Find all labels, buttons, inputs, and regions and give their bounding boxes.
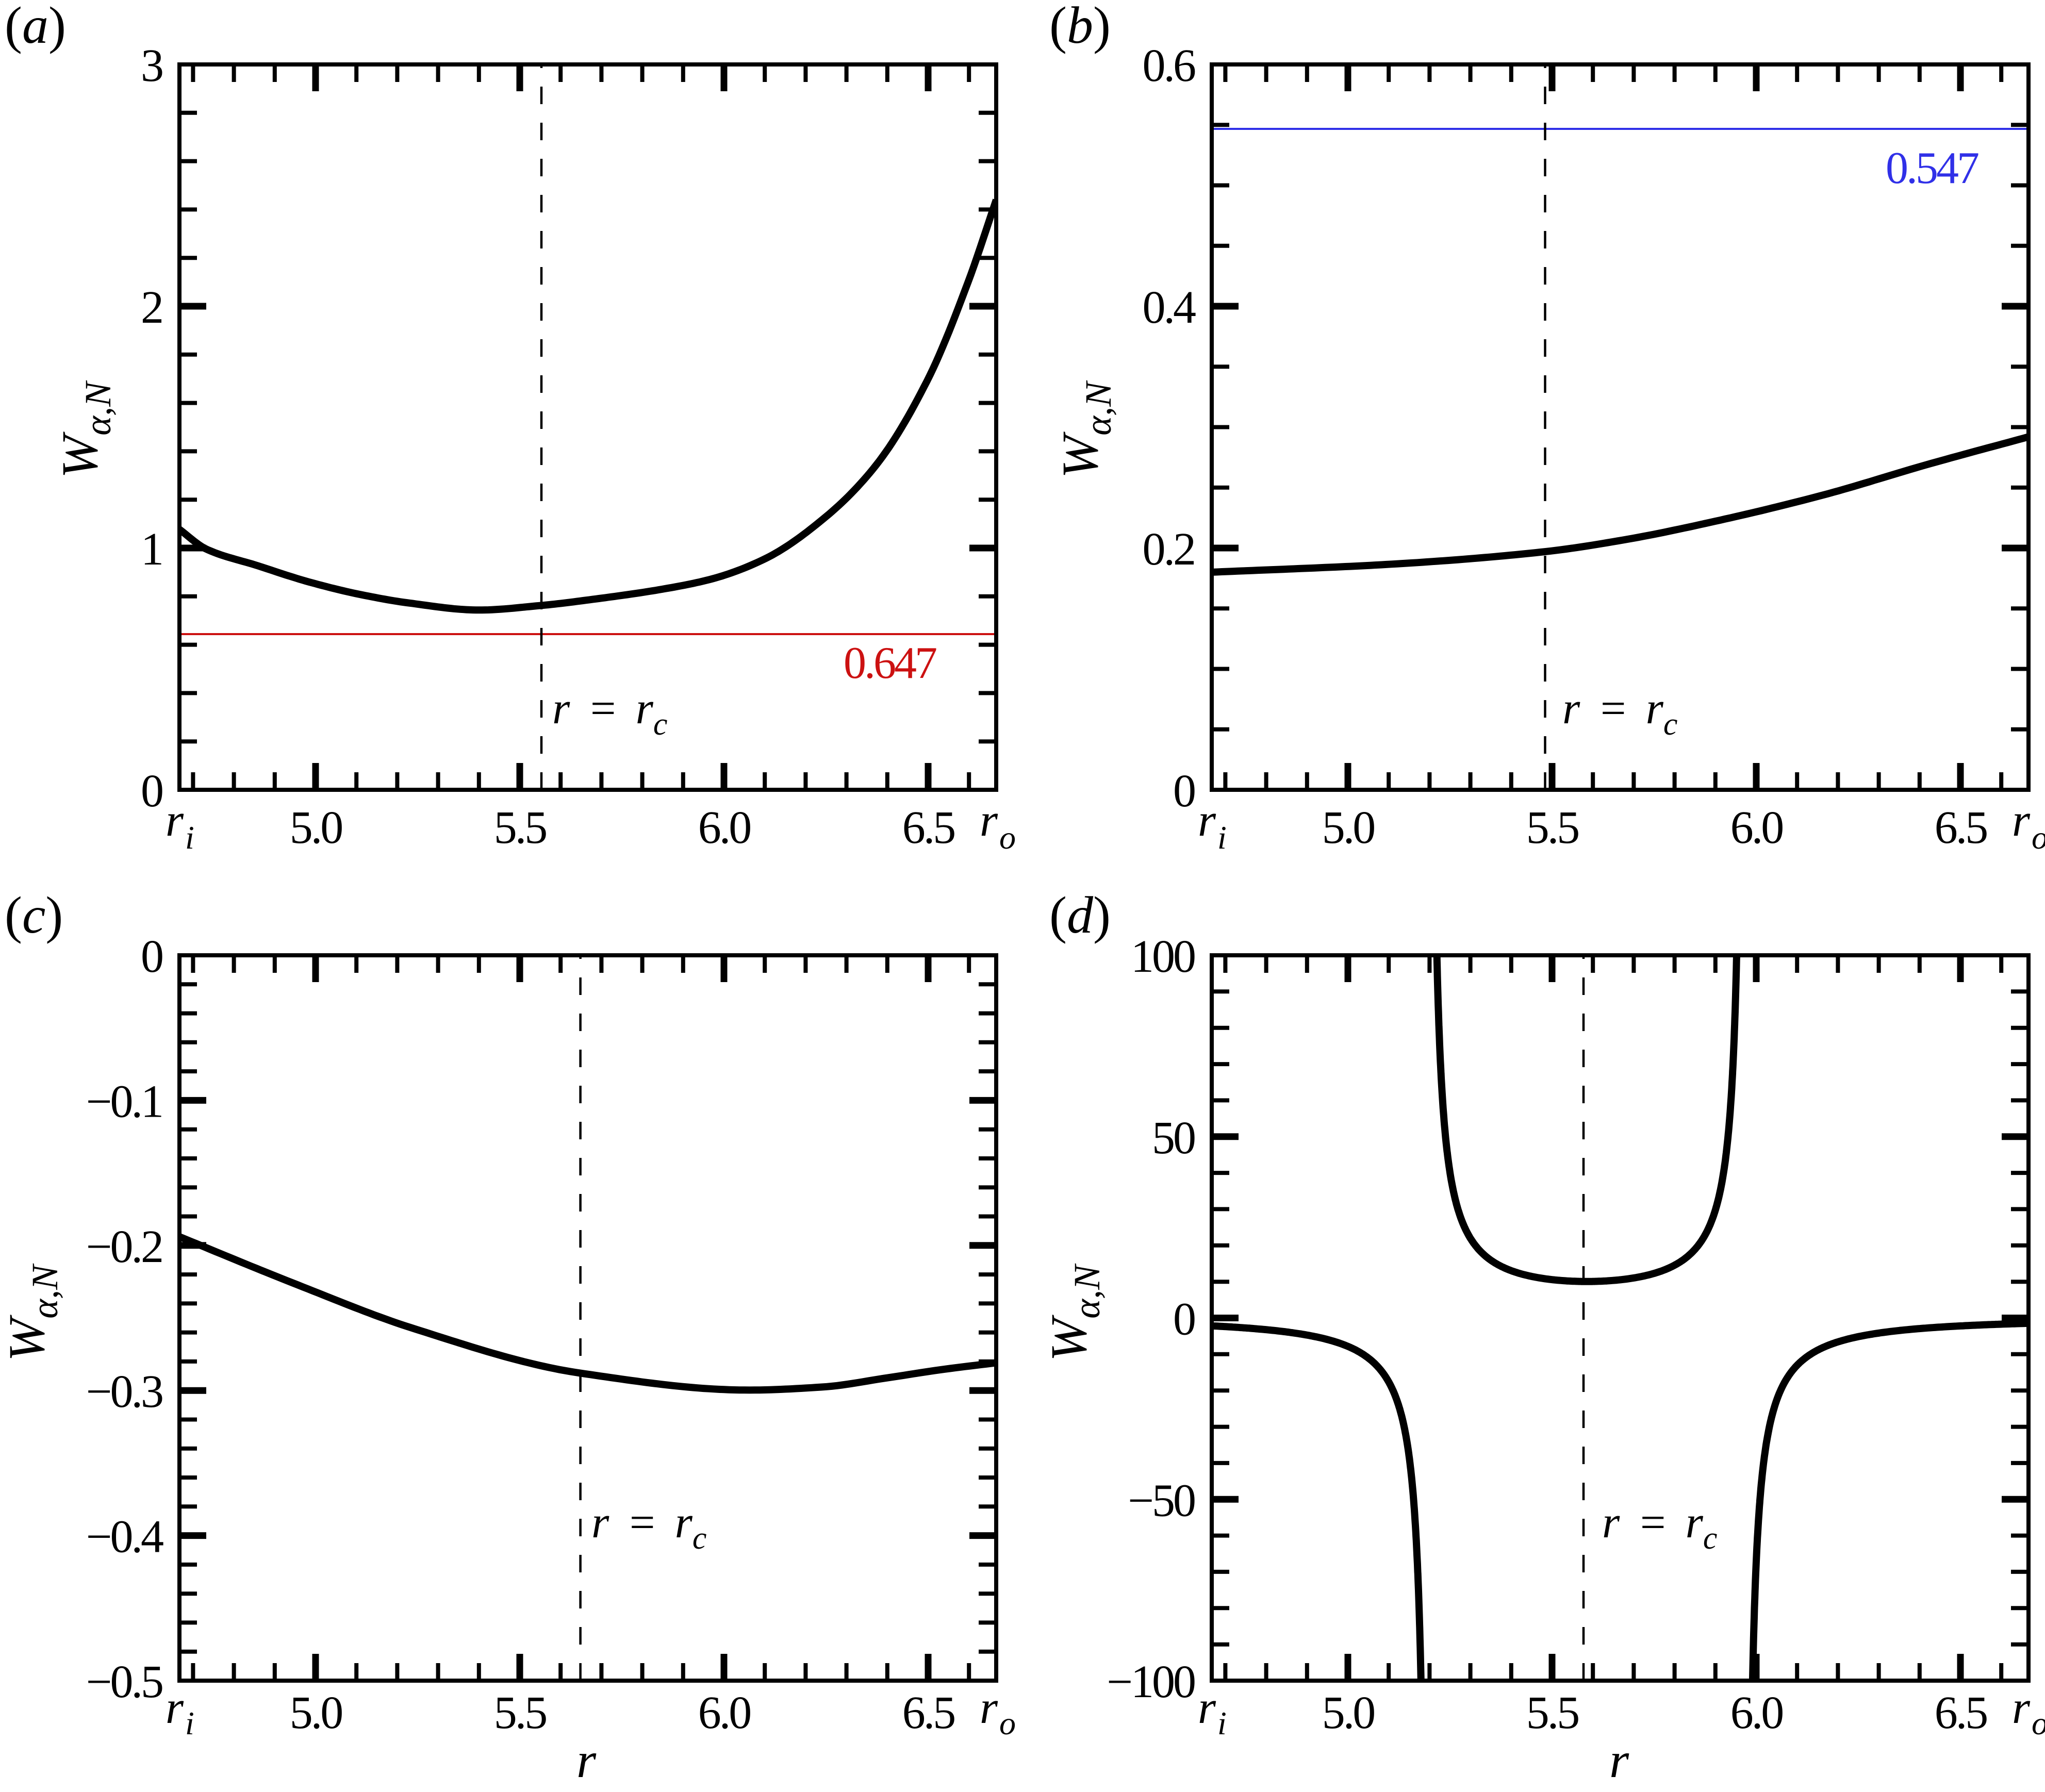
svg-text:0: 0 <box>141 766 162 817</box>
svg-text:r: r <box>2012 1682 2031 1733</box>
svg-text:5.0: 5.0 <box>1322 1687 1375 1738</box>
svg-text:r = rc: r = rc <box>1562 684 1677 742</box>
svg-text:6.0: 6.0 <box>698 802 751 853</box>
svg-text:3: 3 <box>141 40 162 91</box>
svg-text:−0.2: −0.2 <box>86 1221 162 1272</box>
svg-text:0: 0 <box>1173 1294 1195 1345</box>
svg-text:5.5: 5.5 <box>1526 1687 1579 1738</box>
svg-text:(c): (c) <box>5 886 63 944</box>
svg-text:(a): (a) <box>5 0 66 55</box>
svg-text:1: 1 <box>141 524 162 575</box>
svg-text:r: r <box>2012 795 2031 846</box>
svg-text:6.0: 6.0 <box>698 1687 751 1738</box>
svg-text:r: r <box>1198 1682 1216 1733</box>
svg-text:50: 50 <box>1152 1113 1195 1164</box>
svg-text:2: 2 <box>141 282 162 333</box>
svg-text:−50: −50 <box>1128 1475 1195 1526</box>
svg-text:0.6: 0.6 <box>1143 40 1196 91</box>
svg-text:r: r <box>166 1682 184 1733</box>
svg-text:i: i <box>1217 819 1227 856</box>
svg-text:5.5: 5.5 <box>1526 802 1579 853</box>
svg-text:r: r <box>1609 1733 1629 1788</box>
svg-text:i: i <box>1217 1705 1227 1741</box>
svg-text:−0.1: −0.1 <box>86 1076 162 1127</box>
svg-text:r = rc: r = rc <box>1602 1498 1717 1556</box>
svg-text:0.647: 0.647 <box>844 638 936 688</box>
svg-text:−0.5: −0.5 <box>86 1656 162 1707</box>
svg-text:o: o <box>999 819 1016 856</box>
svg-text:5.5: 5.5 <box>494 802 547 853</box>
svg-text:(d): (d) <box>1049 886 1111 944</box>
svg-text:6.0: 6.0 <box>1730 1687 1783 1738</box>
svg-text:r = rc: r = rc <box>591 1498 706 1556</box>
svg-text:0.2: 0.2 <box>1143 524 1195 575</box>
svg-text:−100: −100 <box>1107 1656 1195 1707</box>
svg-text:o: o <box>999 1705 1016 1741</box>
svg-text:6.0: 6.0 <box>1730 802 1783 853</box>
svg-text:o: o <box>2032 819 2045 856</box>
svg-text:5.0: 5.0 <box>290 1687 342 1738</box>
svg-text:(b): (b) <box>1049 0 1111 55</box>
svg-text:0: 0 <box>141 931 162 982</box>
svg-text:6.5: 6.5 <box>902 802 955 853</box>
svg-text:0: 0 <box>1173 766 1195 817</box>
svg-text:5.0: 5.0 <box>1322 802 1375 853</box>
svg-text:6.5: 6.5 <box>1935 802 1987 853</box>
svg-text:r: r <box>980 1682 998 1733</box>
svg-text:r: r <box>166 795 184 846</box>
svg-text:r = rc: r = rc <box>552 684 667 742</box>
svg-text:r: r <box>576 1733 597 1788</box>
svg-text:6.5: 6.5 <box>902 1687 955 1738</box>
svg-text:0.547: 0.547 <box>1886 143 1978 193</box>
svg-text:−0.3: −0.3 <box>86 1366 162 1417</box>
svg-text:r: r <box>1198 795 1216 846</box>
svg-text:100: 100 <box>1131 931 1195 982</box>
svg-text:i: i <box>185 1705 194 1741</box>
svg-text:6.5: 6.5 <box>1935 1687 1987 1738</box>
svg-text:5.0: 5.0 <box>290 802 342 853</box>
svg-text:r: r <box>980 795 998 846</box>
svg-text:5.5: 5.5 <box>494 1687 547 1738</box>
svg-text:0.4: 0.4 <box>1143 282 1196 333</box>
svg-text:i: i <box>185 819 194 856</box>
svg-text:o: o <box>2032 1705 2045 1741</box>
svg-text:−0.4: −0.4 <box>86 1512 163 1563</box>
